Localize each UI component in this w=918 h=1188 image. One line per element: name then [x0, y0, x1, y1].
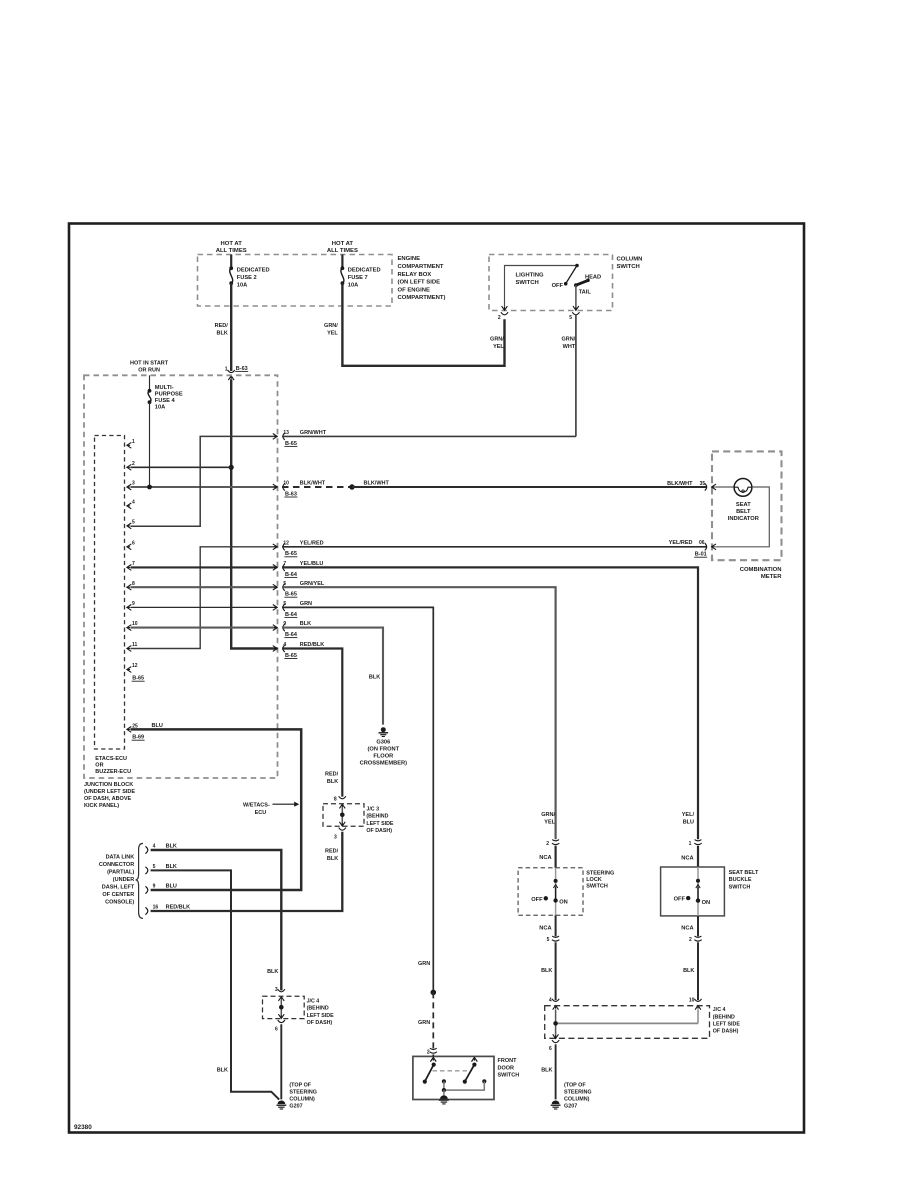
svg-text:2: 2 — [498, 315, 501, 321]
connector 4 B-65 at junction block edge — [273, 642, 298, 659]
connector B-65 at ETACS pin 12 — [132, 676, 145, 682]
lamp seat belt indicator — [715, 479, 769, 547]
wire BLK J/C 4 left to ground G207 — [280, 1024, 282, 1099]
svg-text:FUSE 2: FUSE 2 — [237, 275, 257, 281]
svg-text:B-64: B-64 — [285, 632, 298, 638]
svg-text:NCA: NCA — [681, 926, 693, 932]
engine compartment relay box — [198, 255, 446, 307]
svg-text:B-65: B-65 — [285, 653, 297, 659]
ETACS pin 25 connector B-69 — [127, 723, 145, 740]
svg-text:1: 1 — [225, 366, 228, 372]
svg-text:BLU: BLU — [683, 819, 694, 825]
connector 5 B-64 at junction block edge — [273, 601, 298, 618]
label W/ETACS-ECU with arrow — [243, 802, 299, 816]
svg-text:GRN/WHT: GRN/WHT — [300, 430, 327, 436]
svg-text:BLK: BLK — [216, 330, 227, 336]
svg-text:BUCKLE: BUCKLE — [729, 877, 752, 883]
svg-text:COLUMN): COLUMN) — [289, 1097, 315, 1103]
ETACS pin 9 — [127, 601, 135, 610]
svg-text:(BEHIND: (BEHIND — [366, 814, 388, 820]
svg-text:RED/BLK: RED/BLK — [300, 642, 324, 648]
svg-text:ECU: ECU — [255, 810, 267, 816]
svg-text:B-65: B-65 — [285, 441, 297, 447]
svg-text:92380: 92380 — [74, 1124, 92, 1131]
seat belt buckle switch — [661, 867, 759, 916]
svg-text:B-65: B-65 — [285, 551, 297, 557]
svg-text:12: 12 — [283, 540, 289, 546]
svg-text:B-69: B-69 — [132, 735, 144, 741]
wire RED/BLK row to J/C 3 — [282, 642, 342, 797]
ground G207 (top of steering column, right) — [551, 1083, 592, 1110]
wire BLK DLC pin 5 to ground G207 — [151, 870, 280, 1099]
svg-text:LEFT SIDE: LEFT SIDE — [307, 1013, 335, 1019]
connector J/C 4 left pin 6 exit — [275, 1014, 285, 1032]
svg-text:LEFT SIDE: LEFT SIDE — [366, 821, 394, 827]
svg-text:6: 6 — [275, 1027, 278, 1033]
svg-text:LEFT SIDE: LEFT SIDE — [713, 1021, 741, 1027]
svg-text:12: 12 — [132, 663, 138, 669]
svg-text:BLK: BLK — [541, 968, 552, 974]
svg-text:ALL TIMES: ALL TIMES — [216, 248, 247, 254]
svg-text:GRN: GRN — [418, 1020, 430, 1026]
svg-text:ON: ON — [702, 900, 711, 906]
svg-text:JUNCTION BLOCK: JUNCTION BLOCK — [84, 782, 133, 788]
svg-text:LIGHTING: LIGHTING — [516, 273, 545, 279]
svg-text:9: 9 — [283, 621, 286, 627]
svg-text:G306: G306 — [376, 740, 390, 746]
svg-text:4: 4 — [132, 500, 135, 506]
svg-text:HOT AT: HOT AT — [332, 241, 354, 247]
svg-text:10A: 10A — [348, 282, 358, 288]
DLC pin 5 connector — [145, 864, 177, 874]
fuse F2 DEDICATED FUSE 2 10A — [229, 266, 269, 288]
svg-text:ENGINE: ENGINE — [398, 256, 421, 262]
svg-text:J/C 4: J/C 4 — [307, 999, 320, 1005]
svg-text:5: 5 — [132, 520, 135, 526]
svg-text:SEAT: SEAT — [736, 502, 751, 508]
svg-text:GRN/YEL: GRN/YEL — [300, 581, 325, 587]
svg-text:YEL: YEL — [327, 330, 338, 336]
svg-text:3: 3 — [275, 987, 278, 993]
svg-text:7: 7 — [132, 561, 135, 567]
svg-text:RELAY BOX: RELAY BOX — [398, 272, 432, 278]
wire fuse 4 to ETACS pin 3 row — [149, 402, 151, 487]
svg-text:BLK: BLK — [300, 621, 311, 627]
svg-text:OFF: OFF — [531, 897, 543, 903]
svg-text:06: 06 — [699, 540, 705, 546]
svg-text:5: 5 — [283, 601, 286, 607]
svg-text:GRN/: GRN/ — [561, 337, 575, 343]
svg-text:DEDICATED: DEDICATED — [348, 268, 381, 274]
svg-text:DASH, LEFT: DASH, LEFT — [102, 884, 135, 890]
svg-text:4: 4 — [549, 997, 552, 1003]
svg-text:COMPARTMENT: COMPARTMENT — [398, 264, 444, 270]
svg-text:FUSE 4: FUSE 4 — [155, 398, 176, 404]
connector J/C 4 right pin 4 entry — [549, 997, 559, 1009]
svg-text:(UNDER LEFT SIDE: (UNDER LEFT SIDE — [84, 789, 135, 795]
svg-text:3: 3 — [132, 481, 135, 487]
ETACS pin 1 — [127, 439, 135, 448]
connector pin 2 lighting switch — [498, 306, 508, 321]
ETACS pin 4 — [127, 500, 135, 509]
svg-text:1: 1 — [132, 439, 135, 445]
svg-text:ALL TIMES: ALL TIMES — [327, 248, 358, 254]
svg-text:SWITCH: SWITCH — [516, 280, 539, 286]
connector 2 NCA below buckle switch — [681, 916, 701, 943]
connector J/C 4 right pin 10 entry — [689, 997, 702, 1009]
ETACS pin 3 — [127, 481, 135, 490]
wire internal YEL/RED connector 12 to ETACS pin 11 — [131, 547, 278, 649]
svg-text:B-63: B-63 — [285, 491, 297, 497]
svg-text:1: 1 — [689, 841, 692, 847]
svg-text:SWITCH: SWITCH — [617, 264, 640, 270]
svg-text:(ON FRONT: (ON FRONT — [368, 747, 400, 753]
front door switch — [413, 1054, 519, 1099]
svg-text:BLK: BLK — [327, 856, 338, 862]
wire ETACS pin 7 row — [131, 566, 278, 568]
svg-text:35: 35 — [700, 481, 706, 487]
svg-text:OF DASH): OF DASH) — [713, 1029, 739, 1035]
wire ETACS pin 8 row — [131, 586, 278, 588]
ETACS pin 5 — [127, 520, 135, 529]
svg-text:16: 16 — [153, 905, 159, 911]
svg-text:GRN: GRN — [418, 961, 430, 967]
ground inside front door switch — [439, 1095, 449, 1104]
svg-text:5: 5 — [569, 315, 572, 321]
svg-text:BELT: BELT — [736, 509, 751, 515]
wire GRN row to front door switch — [282, 601, 433, 992]
svg-text:8: 8 — [132, 581, 135, 587]
connector 13 B-65 at junction block edge — [273, 430, 298, 447]
svg-text:OFF: OFF — [552, 283, 564, 289]
connector B-63 pin 1 junction block entry — [225, 366, 248, 380]
steering lock switch — [518, 868, 614, 916]
wire YEL/RED row to combination meter — [282, 540, 707, 547]
wire RED/BLK inside junction block (B-63 pin1 to connector 4) — [231, 379, 277, 648]
svg-text:BLK/WHT: BLK/WHT — [364, 481, 390, 487]
svg-text:(TOP OF: (TOP OF — [289, 1083, 311, 1089]
svg-text:KICK PANEL): KICK PANEL) — [84, 803, 119, 809]
svg-text:HOT IN START: HOT IN START — [130, 360, 169, 366]
junction connector J/C 4 (right) — [545, 1006, 741, 1039]
svg-text:BLK: BLK — [267, 969, 278, 975]
svg-text:OF ENGINE: OF ENGINE — [398, 287, 430, 293]
DLC pin 4 connector — [145, 844, 177, 854]
svg-text:6: 6 — [132, 540, 135, 546]
svg-text:COMPARTMENT): COMPARTMENT) — [398, 295, 446, 301]
node HOT IN START OR RUN — [130, 360, 169, 373]
svg-text:10: 10 — [283, 481, 289, 487]
svg-text:STEERING: STEERING — [289, 1090, 317, 1096]
wire BLK row to ground G306 — [282, 621, 383, 724]
svg-text:PURPOSE: PURPOSE — [155, 392, 183, 398]
connector pin 06 combination meter B-01 — [694, 540, 716, 557]
connector pin 35 combination meter — [700, 481, 716, 491]
connector 7 B-64 at junction block edge — [273, 561, 298, 578]
svg-text:RED/BLK: RED/BLK — [166, 905, 190, 911]
svg-text:3: 3 — [334, 834, 337, 840]
svg-text:BLK: BLK — [217, 1067, 228, 1073]
svg-text:SEAT BELT: SEAT BELT — [729, 870, 759, 876]
svg-text:B-64: B-64 — [285, 612, 298, 618]
svg-text:B-65: B-65 — [132, 676, 144, 682]
svg-text:GRN/: GRN/ — [541, 812, 555, 818]
svg-text:INDICATOR: INDICATOR — [728, 516, 759, 522]
DLC pin 16 connector — [145, 905, 190, 915]
wire fuse 2 feed — [230, 255, 232, 267]
svg-text:2: 2 — [427, 1049, 430, 1055]
svg-text:BLK: BLK — [369, 675, 380, 681]
svg-text:BLK: BLK — [327, 779, 338, 785]
junction dot RED/BLK to ETACS pin 2 — [229, 465, 234, 470]
svg-text:B-01: B-01 — [695, 552, 707, 558]
svg-text:(PARTIAL): (PARTIAL) — [107, 869, 134, 875]
svg-text:(BEHIND: (BEHIND — [713, 1014, 735, 1020]
svg-text:10A: 10A — [237, 282, 247, 288]
svg-text:HOT AT: HOT AT — [221, 241, 243, 247]
svg-text:BLK/WHT: BLK/WHT — [667, 481, 693, 487]
svg-text:ETACS-ECU: ETACS-ECU — [95, 756, 127, 762]
wire GRN/WHT row (junction block to lighting switch) — [282, 430, 576, 436]
svg-text:SWITCH: SWITCH — [729, 884, 751, 890]
svg-text:5: 5 — [547, 937, 550, 943]
svg-text:G207: G207 — [289, 1104, 302, 1110]
wire fuse 7 feed — [341, 255, 343, 267]
svg-text:YEL/: YEL/ — [682, 812, 695, 818]
svg-text:COLUMN): COLUMN) — [564, 1097, 590, 1103]
svg-text:FLOOR: FLOOR — [373, 754, 393, 760]
wire YEL/BLU row to seat belt buckle switch — [282, 561, 698, 839]
svg-text:10: 10 — [689, 997, 695, 1003]
svg-text:TAIL: TAIL — [579, 290, 592, 296]
wire buckle switch feed — [697, 846, 699, 867]
svg-text:COLUMN: COLUMN — [617, 257, 643, 263]
svg-text:8: 8 — [334, 797, 337, 803]
svg-text:10A: 10A — [155, 405, 165, 411]
svg-text:YEL: YEL — [544, 819, 555, 825]
svg-text:CROSSMEMBER): CROSSMEMBER) — [360, 761, 408, 767]
svg-text:J/C 4: J/C 4 — [713, 1007, 726, 1013]
wire BLK buckle switch to J/C 4 — [683, 942, 698, 1000]
wire ETACS pin 3 to connector 10 (BLK/WHT) — [131, 485, 278, 490]
junction block (dashed) — [84, 375, 278, 809]
wire GRN/YEL row to steering lock switch — [282, 581, 556, 839]
connector J/C 4 left pin 3 entry — [267, 969, 285, 1001]
svg-text:STEERING: STEERING — [564, 1090, 592, 1096]
svg-text:COMBINATION: COMBINATION — [740, 567, 782, 573]
connector 2 NCA steering lock switch — [539, 840, 559, 861]
svg-text:B-63: B-63 — [236, 366, 248, 372]
svg-text:GRN/: GRN/ — [490, 337, 504, 343]
wire RED/BLK fuse 2 to junction block connector B-63 — [215, 283, 232, 371]
connector 5 NCA below steering lock switch — [539, 915, 559, 943]
svg-text:MULTI-: MULTI- — [155, 385, 174, 391]
svg-text:NCA: NCA — [539, 855, 551, 861]
lighting switch S1 — [505, 264, 602, 311]
ETACS pin 10 — [127, 621, 138, 630]
svg-text:SWITCH: SWITCH — [498, 1073, 520, 1079]
ETACS pin 12 — [127, 663, 138, 672]
svg-text:NCA: NCA — [539, 925, 551, 931]
DLC pin 9 connector — [145, 884, 177, 894]
svg-text:OFF: OFF — [674, 897, 686, 903]
ETACS pin 6 — [127, 540, 135, 549]
wire BLU ETACS pin 25 to data link connector pin 9 — [131, 723, 302, 890]
data link connector (partial) — [99, 843, 143, 918]
fuse multi-purpose fuse 4 10A — [148, 375, 183, 410]
wire BLK steering lock to J/C 4 — [541, 942, 556, 1000]
ground G207 (top of steering column, left) — [277, 1083, 317, 1110]
wire steering lock switch feed — [554, 846, 556, 868]
svg-text:HEAD: HEAD — [585, 274, 601, 280]
svg-text:ON: ON — [559, 900, 568, 906]
node HOT AT ALL TIMES (fuse 2 feed) — [216, 241, 247, 254]
svg-text:RED/: RED/ — [215, 323, 229, 329]
svg-text:B-64: B-64 — [285, 572, 298, 578]
svg-text:2: 2 — [546, 841, 549, 847]
svg-text:BLK/WHT: BLK/WHT — [300, 481, 326, 487]
svg-text:7: 7 — [283, 561, 286, 567]
svg-text:OF DASH): OF DASH) — [366, 828, 392, 834]
svg-text:BLU: BLU — [166, 884, 177, 890]
svg-text:DOOR: DOOR — [498, 1065, 515, 1071]
svg-text:GRN: GRN — [300, 601, 312, 607]
svg-text:FRONT: FRONT — [498, 1058, 518, 1064]
wire ETACS pin 10 row — [131, 627, 278, 629]
svg-text:LOCK: LOCK — [586, 877, 602, 883]
combination meter box — [712, 451, 782, 580]
svg-text:OR: OR — [95, 763, 103, 769]
svg-text:YEL/RED: YEL/RED — [300, 540, 324, 546]
svg-text:(BEHIND: (BEHIND — [307, 1006, 329, 1012]
wire GRN dashed to front door switch pin 2 — [418, 992, 433, 1048]
svg-text:BLK: BLK — [683, 968, 694, 974]
ETACS pin 11 — [127, 642, 138, 651]
ETACS pin 2 — [127, 461, 135, 470]
svg-text:4: 4 — [283, 642, 286, 648]
svg-text:DEDICATED: DEDICATED — [237, 268, 270, 274]
svg-text:J/C 3: J/C 3 — [366, 807, 379, 813]
svg-text:CONSOLE): CONSOLE) — [105, 899, 134, 905]
wire ETACS pin 9 row — [131, 606, 278, 608]
ETACS pin 7 — [127, 561, 135, 570]
svg-text:9: 9 — [132, 601, 135, 607]
svg-text:BUZZER-ECU: BUZZER-ECU — [95, 769, 131, 775]
svg-text:BLK: BLK — [541, 1067, 552, 1073]
svg-text:6: 6 — [549, 1046, 552, 1052]
connector 9 B-64 at junction block edge — [273, 621, 298, 638]
svg-text:SWITCH: SWITCH — [586, 884, 608, 890]
wire GRN/YEL label at lighting switch pin 2 — [490, 337, 504, 350]
wire internal GRN/WHT connector 13 to ETACS pin 5 — [131, 436, 278, 526]
svg-text:OF CENTER: OF CENTER — [102, 892, 134, 898]
svg-text:RED/: RED/ — [325, 849, 339, 855]
svg-text:G207: G207 — [564, 1104, 577, 1110]
svg-text:B-65: B-65 — [285, 592, 297, 598]
wire RED/BLK J/C 3 to data link connector pin 16 — [151, 832, 343, 911]
svg-text:13: 13 — [283, 430, 289, 436]
wire BLK DLC pin 4 to J/C 4 — [151, 850, 282, 990]
svg-text:RED/: RED/ — [325, 771, 339, 777]
ETACS-ECU box — [95, 436, 132, 776]
connector J/C 3 pin 8 entry — [334, 796, 346, 808]
svg-text:METER: METER — [761, 574, 782, 580]
connector 2 front door switch — [427, 1048, 437, 1055]
wire GRN/WHT lighting switch pin 5 down — [561, 315, 575, 436]
connector 12 B-65 at junction block edge — [273, 540, 298, 557]
svg-text:OR RUN: OR RUN — [138, 368, 160, 374]
svg-text:10: 10 — [132, 621, 138, 627]
svg-text:YEL/RED: YEL/RED — [669, 540, 693, 546]
svg-text:2: 2 — [132, 461, 135, 467]
svg-text:GRN/: GRN/ — [324, 323, 338, 329]
svg-text:9: 9 — [153, 884, 156, 890]
svg-text:(TOP OF: (TOP OF — [564, 1083, 586, 1089]
svg-text:OF DASH, ABOVE: OF DASH, ABOVE — [84, 796, 131, 802]
connector 10 B-63 at junction block edge — [273, 481, 298, 498]
junction dot GRN solid-to-dashed — [431, 990, 437, 996]
svg-text:DATA LINK: DATA LINK — [106, 854, 135, 860]
svg-text:5: 5 — [283, 581, 286, 587]
wire GRN/YEL fuse 7 to lighting switch pin 2 — [324, 283, 504, 366]
svg-text:OF DASH): OF DASH) — [307, 1020, 333, 1026]
node HOT AT ALL TIMES (fuse 7 feed) — [327, 241, 358, 254]
connector J/C 3 pin 3 exit — [334, 822, 346, 841]
svg-text:STEERING: STEERING — [586, 870, 614, 876]
svg-text:NCA: NCA — [681, 855, 693, 861]
ETACS pin 8 — [127, 581, 135, 590]
svg-text:5: 5 — [153, 864, 156, 870]
svg-text:2: 2 — [689, 937, 692, 943]
wire BLK/WHT row to combination meter — [282, 481, 707, 490]
svg-text:YEL/BLU: YEL/BLU — [300, 561, 324, 567]
svg-text:(ON LEFT SIDE: (ON LEFT SIDE — [398, 280, 441, 286]
ground G306 — [360, 727, 408, 766]
column switch box — [489, 255, 642, 311]
fuse F7 DEDICATED FUSE 7 10A — [341, 266, 381, 288]
svg-text:CONNECTOR: CONNECTOR — [99, 862, 134, 868]
svg-text:YEL: YEL — [493, 344, 504, 350]
svg-text:WHT: WHT — [563, 344, 576, 350]
connector J/C 4 right pin 6 exit — [549, 1034, 559, 1052]
connector pin 5 lighting switch — [569, 306, 579, 321]
junction connector J/C 3 — [323, 804, 394, 834]
svg-text:11: 11 — [132, 642, 138, 648]
svg-text:FUSE 7: FUSE 7 — [348, 275, 368, 281]
wire ETACS pin 2 — [131, 466, 232, 468]
connector 5 B-65 at junction block edge — [273, 581, 298, 598]
connector 1 NCA seat belt buckle switch — [681, 840, 701, 862]
svg-text:W/ETACS-: W/ETACS- — [243, 803, 270, 809]
junction connector J/C 4 (left) — [263, 996, 335, 1026]
wire BLK J/C 4 right to ground G207 — [541, 1044, 555, 1099]
svg-text:(UNDER: (UNDER — [113, 877, 134, 883]
svg-text:BLK: BLK — [166, 864, 177, 870]
svg-text:BLU: BLU — [152, 723, 163, 729]
